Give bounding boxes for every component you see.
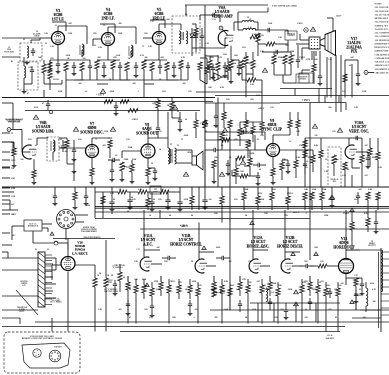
label value fuzz 50 [304, 167, 308, 169]
label value fuzz 72 [320, 261, 324, 263]
label value3 56K 52 [314, 247, 318, 249]
label V11A 1/2 6CN7 AFC [141, 234, 156, 246]
wire V7 plate [92, 138, 110, 145]
label value3 .25 54 [149, 317, 152, 319]
capacitor C11 [102, 62, 106, 74]
resistor filter r6 [101, 196, 105, 204]
capacitor V13 cath byp [360, 280, 365, 296]
svg-text:2.2K: 2.2K [98, 47, 102, 49]
wire top run a [185, 4, 268, 6]
wire video mesh2 [274, 45, 298, 55]
svg-text:T5: T5 [170, 144, 172, 146]
wire under bus c [85, 187, 87, 192]
label value3 R88 65 [86, 205, 89, 207]
svg-text:2.2K: 2.2K [134, 261, 138, 263]
resistor bottom network 18 [300, 279, 304, 299]
resistor sync 11 [251, 126, 255, 142]
label value fuzz 90 [280, 309, 284, 311]
label value2 F1 38 [35, 249, 37, 251]
label value 1K 34 [99, 273, 102, 275]
triode V12B horiz disch [281, 259, 294, 273]
resistor R11 [95, 60, 99, 80]
label value2 120K 19 [236, 165, 241, 167]
svg-text:470K: 470K [322, 189, 327, 191]
wire T5 to speaker [176, 150, 192, 163]
svg-text:220K: 220K [116, 55, 121, 57]
label value2 47K 13 [258, 193, 262, 195]
svg-text:82K: 82K [78, 139, 82, 141]
svg-text:TO LINE 117V: TO LINE 117V [375, 29, 389, 31]
capacitor filter e2 [127, 196, 132, 210]
svg-text:2.2M: 2.2M [306, 59, 311, 61]
label value fuzz 32 [328, 107, 332, 109]
triode V10A vert osc [345, 145, 358, 159]
ground T2 [25, 61, 30, 65]
label value fuzz 48 [315, 135, 318, 137]
wire sound B+ line [25, 110, 200, 112]
wire B+135V bus [2, 97, 215, 99]
capacitor C8 [72, 62, 76, 72]
svg-text:.01: .01 [259, 169, 262, 171]
wire V3 cathode [57, 45, 59, 61]
transformer T4 video det (dashed shield) [172, 16, 200, 53]
label value fuzz 13 [85, 91, 87, 93]
label value fuzz 15 [137, 91, 138, 93]
svg-text:SPKR: SPKR [187, 152, 193, 154]
quad coil (dashed shield) [47, 137, 59, 161]
label value fuzz 14 [110, 91, 115, 93]
svg-text:1 MEG: 1 MEG [343, 213, 350, 215]
svg-text:470K: 470K [132, 159, 137, 161]
wire rt v3 [324, 96, 326, 103]
label value3 20 36 [149, 215, 151, 217]
svg-text:SIZE: SIZE [333, 181, 337, 183]
wire v6a cath join [231, 59, 239, 61]
wire V11A grid [151, 263, 162, 265]
label value3 .047 48 [156, 247, 160, 249]
svg-text:HORIZ: HORIZ [220, 291, 225, 293]
capacitor sync 10 [226, 160, 231, 176]
svg-text:470K: 470K [312, 189, 317, 191]
wire vert trunk x341 [340, 55, 342, 112]
transformer T8 flyback [379, 248, 389, 332]
svg-text:+100 V: +100 V [258, 108, 265, 110]
svg-text:METER 20K/V: METER 20K/V [375, 18, 389, 20]
warning triangle 11 [222, 128, 227, 132]
label value2 22K 17 [214, 157, 218, 159]
svg-text:39K: 39K [248, 261, 252, 263]
svg-text:CIRCLED LETTERS: CIRCLED LETTERS [375, 72, 389, 74]
label value fuzz 4 [144, 33, 148, 35]
label value2 T 44 [95, 139, 97, 141]
svg-text:120K: 120K [272, 283, 277, 285]
contrast control [285, 31, 297, 40]
label value2 12 47 [151, 163, 153, 165]
wire V9 right [280, 150, 297, 160]
CRT socket [309, 37, 320, 49]
svg-text:100: 100 [265, 289, 268, 291]
svg-text:47K: 47K [284, 215, 288, 217]
wire V12A grid [260, 265, 270, 267]
width coil [355, 282, 368, 312]
wire sync bus tap [240, 112, 262, 128]
svg-text:2.2K: 2.2K [368, 189, 373, 191]
svg-text:500K: 500K [124, 159, 129, 161]
svg-text:500: 500 [373, 301, 376, 303]
warning triangle 17 [312, 124, 317, 128]
wire bus taps up [144, 187, 199, 223]
svg-text:2.2K: 2.2K [342, 175, 346, 177]
svg-text:.047: .047 [358, 189, 362, 191]
wire IF under 2 [97, 59, 120, 61]
label value 10 21 [159, 149, 161, 151]
label value3 .047 26 [350, 57, 354, 59]
svg-text:4.7K: 4.7K [218, 57, 223, 59]
label value 1B3 48 [354, 281, 357, 283]
svg-text:10K: 10K [244, 131, 248, 133]
svg-text:L22: L22 [271, 292, 274, 294]
resistor hz 1 [242, 192, 246, 210]
svg-text:.01: .01 [319, 282, 322, 284]
resistor hz 2 [256, 196, 260, 210]
svg-text:18K: 18K [144, 33, 148, 35]
svg-text:ALL CONDENSER MFD: ALL CONDENSER MFD [375, 35, 389, 38]
resistor video 8 [203, 120, 207, 140]
wire vert drop 3 [252, 210, 254, 250]
wire V6A cathode [230, 46, 232, 60]
label value fuzz 23 [297, 23, 304, 25]
capacitor C sound takeoff [46, 100, 50, 110]
svg-text:.01: .01 [377, 199, 379, 201]
label value3 C31 16 [212, 19, 215, 21]
wire rb mesh [352, 210, 368, 250]
svg-text:47K: 47K [304, 167, 308, 169]
capacitor btx [284, 306, 289, 320]
svg-text:.01: .01 [229, 157, 232, 159]
svg-text:82: 82 [335, 317, 337, 319]
svg-text:3.3K: 3.3K [236, 289, 240, 291]
svg-text:ARROWS ON CONTROLS: ARROWS ON CONTROLS [375, 64, 389, 67]
vert size control (dashed box) [328, 147, 341, 187]
warning triangle 12 [240, 160, 245, 164]
wire sync mesh [236, 112, 305, 168]
resistor bottom network 7 [177, 279, 181, 299]
label value fuzz 25 [314, 59, 318, 61]
label value fuzz 73 [129, 289, 131, 291]
warning triangle 24 [202, 246, 206, 250]
wire L9-L10 [238, 22, 258, 30]
tube V4 6CB6 [102, 33, 115, 46]
svg-text:560K: 560K [192, 281, 197, 283]
label +250V mid [180, 225, 188, 228]
warning triangle 6 [202, 120, 207, 124]
svg-text:27K: 27K [332, 131, 336, 133]
label value2 1 MEG 15 [287, 193, 294, 195]
svg-text:.047: .047 [350, 57, 354, 59]
label value fuzz 60 [234, 199, 238, 201]
resistor R17 [150, 62, 154, 80]
svg-text:OTHERWISE NOTED: OTHERWISE NOTED [375, 43, 389, 45]
resistor video 6 [266, 42, 275, 46]
label value 47K 4 [113, 57, 117, 59]
resistor nz4 [226, 64, 230, 80]
svg-text:330: 330 [229, 261, 232, 263]
resistor V13 grid stopper [318, 264, 327, 268]
svg-text:CATHODE RAY WARN: CATHODE RAY WARN [375, 57, 389, 60]
tube V8 6AQ5 [141, 144, 155, 158]
label V7 6BN6 SOUND DISC [80, 122, 104, 134]
label value fuzz 37 [78, 139, 82, 141]
capacitor su2 [256, 172, 261, 186]
label V13 6DQ6 HORIZ OUT [333, 237, 355, 249]
test point T video [219, 26, 227, 35]
transformer L7 2nd IF coil [129, 45, 133, 57]
svg-text:R1: R1 [11, 61, 13, 63]
svg-text:.01: .01 [205, 131, 207, 133]
resistor bottom network 12 [228, 282, 232, 302]
svg-text:TOP VIEW: TOP VIEW [54, 347, 62, 349]
remote chassis outline [22, 343, 70, 368]
capacitor video 3 [223, 62, 228, 78]
label value fuzz 76 [210, 289, 213, 291]
svg-text:ALL CONDENSERS IN: ALL CONDENSERS IN [375, 32, 389, 35]
transformer T5 sound output [168, 144, 176, 164]
svg-text:1K: 1K [245, 215, 248, 217]
label value fuzz 19 [232, 63, 237, 65]
svg-text:.047: .047 [210, 289, 213, 291]
wire V8 grid [122, 151, 141, 158]
label value2 22K 4 [285, 45, 289, 47]
label value3 .1 17 [223, 11, 225, 13]
resistor vert 3 [319, 150, 323, 168]
resistor bottom network 20 [316, 279, 320, 299]
wire sync runs [205, 132, 265, 146]
capacitor C19 [186, 62, 190, 74]
label value3 1K 28 [167, 105, 170, 107]
label value2 47K 24 [178, 282, 182, 284]
resistor vert 1 [303, 150, 307, 170]
wire left entry 2 [2, 200, 10, 210]
label value fuzz 3 [118, 33, 123, 35]
wire mid drop a [192, 48, 205, 103]
label value 47K 24 [234, 139, 238, 141]
label value2 4.7K 1 [218, 57, 223, 59]
wire brightness net [274, 52, 310, 83]
label value 500K 16 [290, 51, 295, 53]
label value3 .047 60 [304, 317, 308, 319]
capacitor filter e3 [149, 198, 154, 212]
label value3 .005 5 [166, 19, 170, 21]
svg-text:.5: .5 [193, 317, 195, 319]
svg-text:220K: 220K [118, 33, 123, 35]
wire under bus b [74, 187, 76, 192]
capacitor video cathode byp [237, 60, 242, 76]
label value2 470K 35 [312, 189, 317, 191]
wire V16 out [75, 265, 96, 278]
capacitor C14 [134, 62, 138, 74]
label B+ 135 [293, 212, 300, 214]
wire V4 cathode [107, 46, 109, 61]
resistor LV filter 2 [104, 270, 108, 300]
wire bottom bus B [35, 321, 389, 323]
capacitor sync c20 [242, 130, 244, 134]
label V9 6BU8 SYNC CLIP [262, 119, 283, 131]
label value 10K 37 [134, 279, 138, 281]
svg-text:25C AL: 25C AL [327, 334, 333, 337]
resistor sync r21 [222, 138, 230, 142]
label value3 L1 6 [23, 39, 25, 41]
label value .047 43 [256, 281, 260, 283]
svg-text:T5: T5 [181, 139, 183, 141]
svg-text:47K: 47K [334, 289, 338, 291]
svg-text:.01: .01 [305, 309, 307, 311]
resistor sync 6 [228, 120, 232, 136]
capacitor rb3 [374, 218, 379, 234]
wire left col a [2, 142, 13, 152]
label value2 SPKR 49 [187, 152, 193, 154]
resistor R14 [125, 62, 129, 80]
label value fuzz 65 [377, 199, 379, 201]
label value fuzz 36 [46, 131, 50, 133]
label value fuzz 1 [68, 33, 73, 35]
label value 8.2K 41 [224, 281, 229, 283]
svg-text:BLK BEAT: BLK BEAT [326, 337, 335, 340]
ground C14 [134, 74, 139, 78]
svg-text:120K: 120K [260, 199, 265, 201]
label value fuzz 57 [158, 199, 162, 201]
wire rb v [375, 210, 377, 218]
label value fuzz 64 [354, 199, 358, 201]
label value fuzz 45 [244, 131, 248, 133]
label value2 1K 6 [119, 189, 122, 191]
svg-text:56K: 56K [328, 107, 332, 109]
stabilizer coil [266, 282, 274, 302]
label value 120K 44 [272, 283, 277, 285]
label left stub AGC [2, 151, 16, 154]
wire filter vert b [148, 192, 180, 198]
svg-text:40: 40 [123, 277, 125, 279]
svg-text:2.2K: 2.2K [354, 107, 358, 109]
label value fuzz 61 [260, 199, 265, 201]
svg-text:680K: 680K [372, 157, 377, 159]
wire V9 cathode [272, 157, 274, 169]
wire vert trunk x230 [229, 150, 231, 310]
label value3 82 61 [335, 317, 337, 319]
svg-text:10K: 10K [234, 55, 238, 57]
resistor vt 3 [366, 192, 370, 210]
wire vert drop 1 [143, 223, 145, 251]
svg-text:VERT. OSC.: VERT. OSC. [349, 129, 369, 133]
svg-text:C5: C5 [55, 25, 57, 27]
label value3 .5 43 [305, 213, 307, 215]
wire V6B plate [37, 138, 48, 145]
label value3 40 37 [169, 215, 171, 217]
resistor vd1 [194, 28, 198, 44]
svg-text:47K: 47K [242, 279, 246, 281]
capacitor sound coupling [108, 158, 120, 162]
resistor vert 9 [376, 192, 380, 210]
svg-text:1K: 1K [159, 79, 162, 81]
svg-text:1K: 1K [167, 105, 170, 107]
resistor R video load [256, 33, 260, 42]
resistor video 1 [208, 60, 212, 80]
label value 560K 29 [308, 157, 313, 159]
capacitor crt bypass [318, 72, 323, 86]
resistor filter r2 [138, 190, 147, 194]
resistor sync 4 [303, 140, 307, 158]
wire V6A grid [205, 38, 227, 48]
triode V11B horiz control [195, 259, 208, 273]
label top view [54, 347, 62, 349]
resistor nz6 [251, 60, 255, 78]
svg-text:10: 10 [97, 275, 99, 277]
svg-text:47K: 47K [258, 193, 262, 195]
label V6B 1/2 6AU8 SOUND LIM [32, 121, 54, 133]
label value3 C9 2 [103, 25, 105, 27]
wire if screens [52, 20, 165, 33]
svg-text:22K: 22K [28, 67, 32, 69]
socket top view big [49, 350, 61, 362]
label +100V [258, 108, 265, 110]
label value fuzz 31 [270, 107, 274, 109]
warning triangle 13 [219, 172, 224, 176]
capacitor filter e1 [109, 198, 114, 212]
label V16 L.V. RECT [72, 241, 88, 256]
svg-text:1K: 1K [119, 189, 122, 191]
label left stub B+ [2, 142, 13, 144]
svg-text:47K: 47K [113, 57, 117, 59]
terminal D circle [364, 71, 374, 75]
svg-text:47K: 47K [50, 58, 54, 60]
svg-text:47K: 47K [328, 309, 332, 311]
svg-text:1.8: 1.8 [325, 159, 328, 161]
resistor bottom network 6 [167, 279, 171, 299]
wire filter mesh2 [192, 187, 222, 223]
wire rt v4 [338, 96, 340, 103]
wire vert drop 5 [345, 210, 347, 250]
svg-text:SOUND OUT: SOUND OUT [136, 131, 158, 135]
resistor vert 5 [360, 155, 364, 175]
resistor su3 [240, 174, 248, 178]
wire v16 bus [52, 265, 62, 280]
svg-text:10K: 10K [214, 213, 218, 215]
label value fuzz 41 [168, 155, 172, 157]
wire sx mesh [216, 103, 298, 120]
label value fuzz 78 [265, 289, 268, 291]
label value3 .1 51 [295, 247, 297, 249]
svg-text:3.3K: 3.3K [50, 46, 54, 48]
label value2 560 27 [249, 282, 252, 284]
svg-text:OHMS K=1000: OHMS K=1000 [375, 51, 389, 53]
label value2 2.2K 21 [296, 157, 301, 159]
svg-text:100: 100 [145, 57, 148, 59]
resistor sx2 [222, 112, 226, 128]
wire top run b [204, 5, 206, 20]
label value3 .01 29 [177, 111, 180, 113]
resistor bottom network 16 [268, 276, 272, 296]
wire su mesh2 [232, 170, 250, 176]
svg-text:39K: 39K [314, 59, 318, 61]
warning triangle 2 [172, 105, 177, 109]
wire V11B grid [206, 265, 216, 267]
noise inv triangle [212, 73, 226, 81]
label FM sound note [6, 119, 23, 124]
resistor nz5 [244, 56, 248, 74]
resistor vert 7 [376, 152, 380, 172]
wire vert bus drops [305, 168, 378, 187]
warning triangle 3 [33, 115, 38, 119]
label value3 .005 13 [132, 83, 136, 85]
